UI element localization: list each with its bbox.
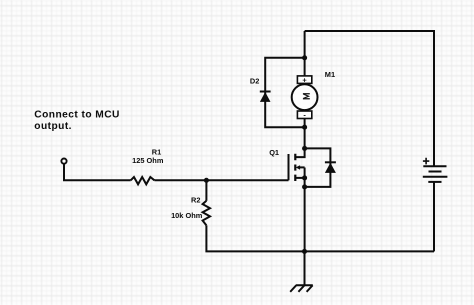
svg-text:Connect to MCU: Connect to MCU xyxy=(34,110,120,121)
svg-text:output.: output. xyxy=(34,121,72,132)
junction dots xyxy=(204,55,307,254)
diode D2 xyxy=(260,92,271,102)
wire drain node to motor xyxy=(304,119,306,149)
node D2 top junction xyxy=(302,55,307,60)
svg-text:10k Ohm: 10k Ohm xyxy=(171,211,203,220)
node ground rail junction xyxy=(302,249,307,254)
transistor Q1 (N-MOSFET) xyxy=(289,148,305,251)
svg-text:Q1: Q1 xyxy=(269,148,279,157)
node source junction xyxy=(302,175,307,180)
terminal (MCU output pin) xyxy=(61,159,66,164)
body arrow head xyxy=(296,165,300,170)
svg-text:M1: M1 xyxy=(325,70,335,79)
svg-text:R2: R2 xyxy=(191,195,200,204)
wire terminal to R1 xyxy=(64,164,131,180)
motor M letter (rotated, drawn as path) xyxy=(303,94,310,99)
resistor R2 xyxy=(203,201,210,226)
battery + sign xyxy=(423,158,429,165)
wire R2 to ground rail xyxy=(206,225,434,251)
diode D2 branch wires xyxy=(265,58,304,127)
wire ground drop xyxy=(304,251,306,285)
node body diode bottom junction xyxy=(302,184,307,189)
ground (chassis) xyxy=(296,284,313,286)
node D2 bottom junction xyxy=(302,125,307,130)
svg-text:D2: D2 xyxy=(250,77,259,86)
wire R2 branch xyxy=(205,180,207,201)
channel segments xyxy=(294,154,296,181)
top wire to battery xyxy=(305,31,434,166)
gate bar xyxy=(288,154,290,180)
body arrow line xyxy=(300,166,305,168)
svg-text:125 Ohm: 125 Ohm xyxy=(132,156,164,165)
motor M1 xyxy=(292,76,318,119)
resistor R1 xyxy=(131,177,155,184)
drain lead xyxy=(295,148,304,157)
wire battery bottom xyxy=(433,182,435,252)
diode body (Q1 body diode) xyxy=(305,148,336,187)
source lead xyxy=(295,177,304,179)
battery BT1 plates xyxy=(423,166,448,182)
node R2/gate junction xyxy=(204,178,209,183)
wire motor top xyxy=(304,31,306,76)
wire R1 to gate Q1 xyxy=(154,179,288,181)
node drain junction xyxy=(302,146,307,151)
source vertical xyxy=(304,168,306,252)
svg-text:+: + xyxy=(302,75,307,84)
